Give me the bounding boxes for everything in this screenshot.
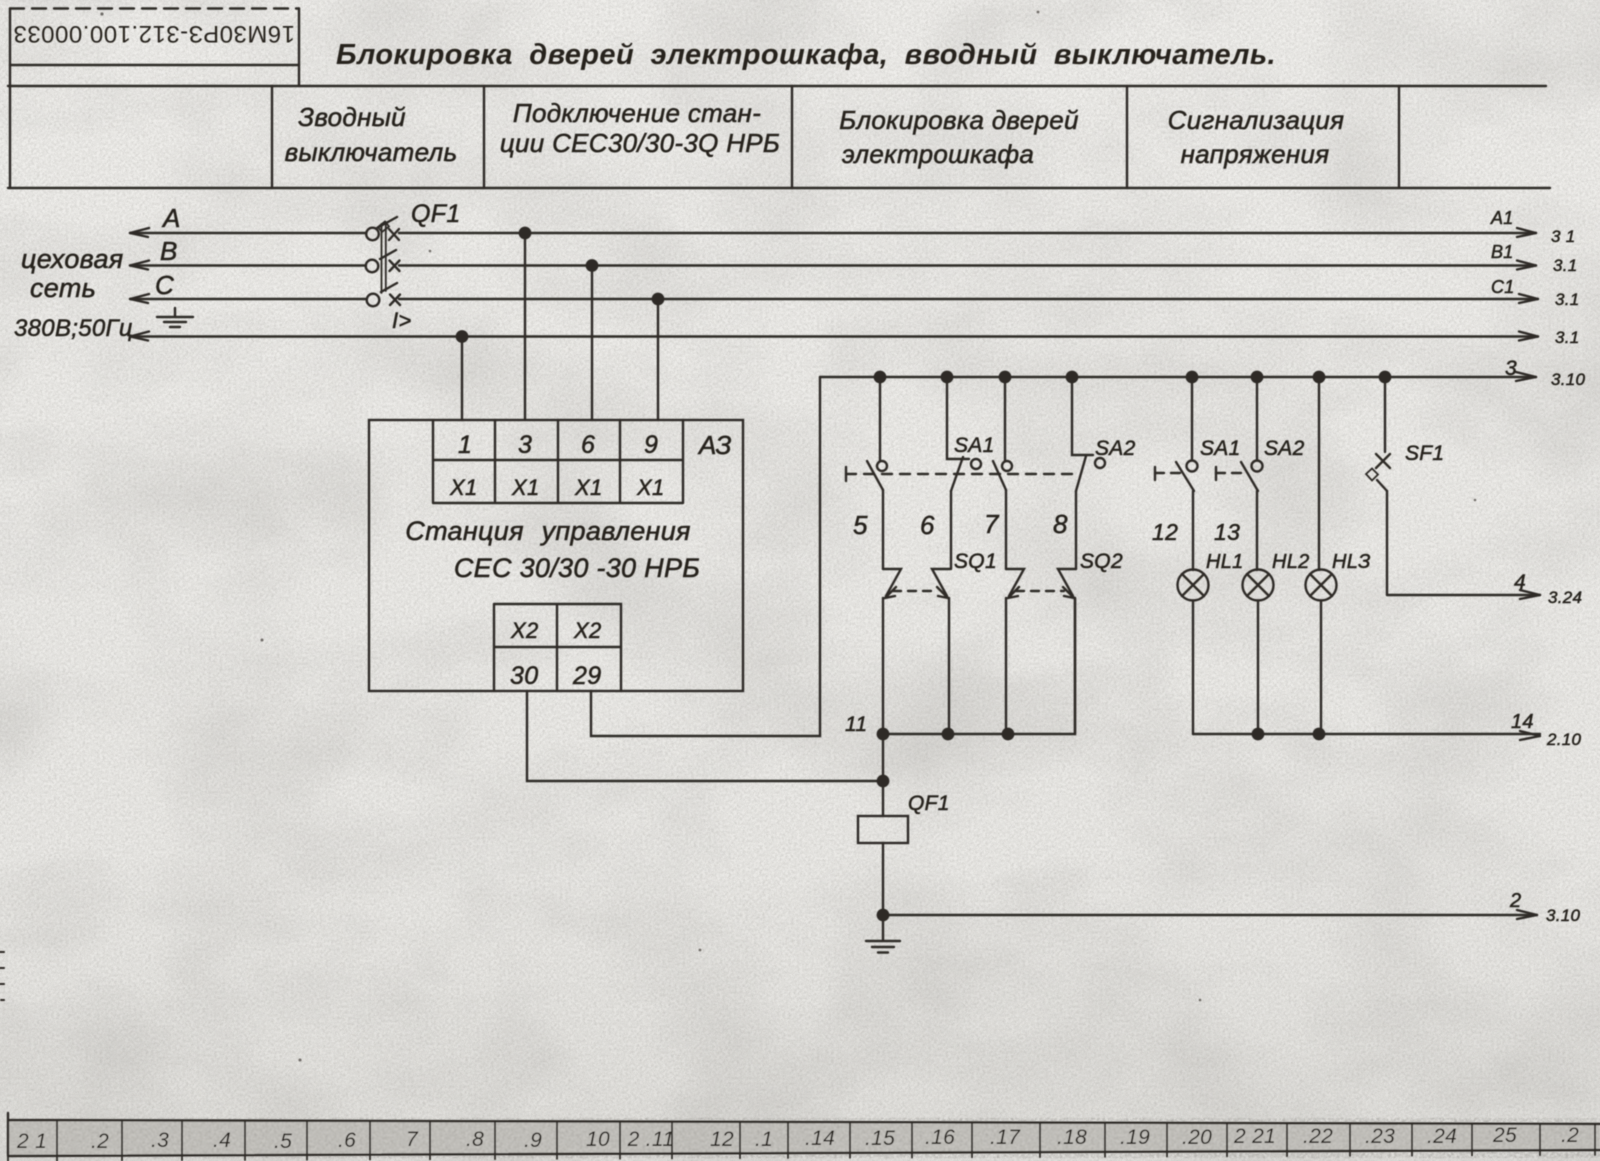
svg-text:3.24: 3.24 <box>1548 588 1582 607</box>
svg-text:А: А <box>161 203 181 233</box>
svg-text:2: 2 <box>1509 890 1521 912</box>
SA1/SA2 mechanical link <box>845 467 847 481</box>
switch SF1 <box>1384 377 1386 452</box>
ruler band borders <box>8 1113 1600 1156</box>
svg-text:3.1: 3.1 <box>1555 290 1580 309</box>
svg-text:.6: .6 <box>338 1129 356 1152</box>
svg-text:QF1: QF1 <box>411 200 461 228</box>
ruler cell dividers <box>8 1120 1595 1161</box>
svg-text:.17: .17 <box>990 1126 1021 1149</box>
junction node on neutral to X1:1 <box>457 331 467 341</box>
svg-text:Х1: Х1 <box>511 475 540 500</box>
wire to lamp HL3 <box>1318 377 1320 570</box>
bus 3 wire <box>820 376 1536 378</box>
svg-text:13: 13 <box>1214 519 1240 545</box>
svg-text:16М30РЗ-312.100.00033: 16М30РЗ-312.100.00033 <box>13 20 295 47</box>
wire 2 <box>883 914 1537 916</box>
svg-text:Блокировка дверей электрошка: Блокировка дверей электрошкафа, вводный … <box>336 39 1276 71</box>
svg-text:сеть: сеть <box>30 273 96 303</box>
breaker QF1 pole C contact <box>367 294 380 307</box>
svg-text:.20: .20 <box>1182 1126 1212 1149</box>
svg-text:.2: .2 <box>91 1130 109 1153</box>
SQ2 link <box>1016 590 1064 592</box>
svg-text:1: 1 <box>458 431 472 459</box>
breaker QF1 pole A contact <box>366 228 379 241</box>
svg-text:3 1: 3 1 <box>1551 227 1576 246</box>
svg-text:В1: В1 <box>1491 242 1514 262</box>
svg-text:.4: .4 <box>213 1129 231 1152</box>
svg-text:Блокировка дверей: Блокировка дверей <box>839 105 1079 135</box>
svg-text:.9: .9 <box>524 1129 542 1152</box>
svg-text:.19: .19 <box>1120 1126 1150 1149</box>
left margin marks <box>0 952 4 1000</box>
svg-text:СЕС 30/30 -30 НРБ: СЕС 30/30 -30 НРБ <box>454 553 700 583</box>
switch SA2 pole 2 <box>1072 377 1093 455</box>
svg-text:12: 12 <box>1152 519 1178 545</box>
terminal strip X1 <box>433 420 683 503</box>
limit switch SQ2 pole B <box>1058 569 1076 596</box>
svg-text:3.1: 3.1 <box>1553 256 1578 275</box>
junction node on phase B to X1:6 <box>587 260 597 270</box>
ground symbol on neutral <box>157 308 193 327</box>
svg-text:30: 30 <box>510 662 538 690</box>
wire phase A to X1:3 <box>524 233 526 420</box>
svg-text:напряжения: напряжения <box>1181 139 1330 169</box>
svg-text:Подключение стан-: Подключение стан- <box>513 98 761 128</box>
svg-text:А1: А1 <box>1490 208 1514 228</box>
control station A3 outline <box>369 420 743 691</box>
switch SA2 (signal) <box>1256 377 1258 460</box>
wire coil to ground <box>882 843 884 915</box>
scan specks <box>100 11 1476 1062</box>
ruler band fill <box>8 1120 1600 1156</box>
svg-text:14: 14 <box>1511 711 1534 733</box>
svg-text:10: 10 <box>586 1128 610 1151</box>
lamp HL3 <box>1306 570 1337 601</box>
svg-text:С1: С1 <box>1491 277 1515 297</box>
switch SA1 pole 2 <box>947 377 969 459</box>
wire X2:30 to QF1 coil node <box>527 691 880 781</box>
svg-text:.3: .3 <box>151 1129 169 1152</box>
svg-text:Сигнализация: Сигнализация <box>1168 105 1345 135</box>
wire phase B to X1:6 <box>591 266 593 421</box>
svg-text:.2: .2 <box>1561 1124 1579 1147</box>
svg-text:.15: .15 <box>865 1127 895 1150</box>
svg-text:2 .11: 2 .11 <box>627 1128 675 1151</box>
svg-text:выключатель: выключатель <box>285 137 458 167</box>
wire 4 <box>1387 594 1540 596</box>
svg-text:5: 5 <box>853 510 868 540</box>
svg-text:Станция управления: Станция управления <box>405 516 690 546</box>
neutral wire <box>130 335 1538 337</box>
svg-text:12: 12 <box>710 1128 734 1151</box>
svg-text:SA2: SA2 <box>1095 437 1136 460</box>
svg-text:Х1: Х1 <box>636 475 665 500</box>
svg-text:7: 7 <box>406 1128 419 1151</box>
svg-text:29: 29 <box>572 662 601 690</box>
ruler cell labels <box>16 1124 1579 1153</box>
svg-text:.18: .18 <box>1057 1126 1087 1149</box>
svg-text:3: 3 <box>518 431 532 459</box>
limit switch SQ1 pole B <box>932 569 950 596</box>
switch SA2 pole 1 <box>1004 377 1006 461</box>
svg-text:9: 9 <box>644 431 658 459</box>
coil QF1 <box>858 816 908 843</box>
svg-text:НLЗ: НLЗ <box>1332 551 1371 573</box>
svg-text:ции СЕС30/30-3Q НРБ: ции СЕС30/30-3Q НРБ <box>500 128 780 158</box>
svg-text:7: 7 <box>984 509 1000 539</box>
wire node 11 down to coil <box>882 734 884 816</box>
lamp HL1 <box>1178 570 1209 601</box>
svg-text:В: В <box>160 236 178 266</box>
ground <box>866 915 900 953</box>
svg-text:SA1: SA1 <box>954 434 995 457</box>
breaker QF1 linkage bar <box>382 222 386 293</box>
breaker QF1 pole B contact <box>366 260 379 273</box>
svg-text:QF1: QF1 <box>908 792 950 815</box>
phase A wire <box>130 232 1536 234</box>
svg-text:Х2: Х2 <box>573 618 602 643</box>
svg-text:SQ1: SQ1 <box>954 550 997 573</box>
svg-text:Х2: Х2 <box>510 618 539 643</box>
junction dots on bus 3 <box>875 372 885 382</box>
svg-text:Зводный: Зводный <box>298 102 406 132</box>
svg-text:.23: .23 <box>1365 1125 1395 1148</box>
svg-text:4: 4 <box>1514 571 1526 594</box>
svg-text:цеховая: цеховая <box>21 244 124 274</box>
svg-text:2.10: 2.10 <box>1546 730 1582 749</box>
switch SA1 (signal) <box>1191 377 1193 460</box>
svg-text:электрошкафа: электрошкафа <box>842 139 1034 169</box>
svg-text:11: 11 <box>845 713 867 736</box>
svg-text:.16: .16 <box>925 1126 955 1149</box>
switch SA1 pole 1 <box>879 377 881 460</box>
svg-text:HL1: HL1 <box>1206 551 1244 573</box>
lamp HL2 <box>1243 570 1274 601</box>
svg-text:3.10: 3.10 <box>1551 370 1586 389</box>
svg-text:I>: I> <box>392 308 412 333</box>
svg-text:25: 25 <box>1492 1124 1517 1147</box>
svg-text:3: 3 <box>1505 357 1517 380</box>
svg-text:SQ2: SQ2 <box>1080 550 1123 573</box>
svg-text:SA2: SA2 <box>1264 437 1305 460</box>
svg-text:.22: .22 <box>1303 1125 1333 1148</box>
svg-text:8: 8 <box>1053 509 1068 539</box>
svg-text:3.10: 3.10 <box>1546 906 1581 925</box>
svg-text:Х1: Х1 <box>449 475 478 500</box>
wire phase C to X1:9 <box>657 299 659 420</box>
svg-text:380В;50Гц: 380В;50Гц <box>14 315 133 342</box>
lamp drop wires <box>1192 601 1194 735</box>
svg-text:С: С <box>155 270 174 300</box>
phase C wire <box>130 298 1538 300</box>
header table frame <box>8 85 1546 87</box>
limit switch SQ1 pole A <box>883 569 901 596</box>
wire neutral to X1:1 <box>461 337 463 421</box>
SQ1 link <box>893 590 938 592</box>
wire X2:29 up to bus 3 <box>591 377 820 736</box>
svg-text:6: 6 <box>581 431 595 459</box>
wire 14 left segment <box>883 598 1075 734</box>
svg-text:6: 6 <box>920 510 935 540</box>
junction node on phase C to X1:9 <box>653 294 663 304</box>
svg-text:.14: .14 <box>805 1127 835 1150</box>
svg-text:3.1: 3.1 <box>1555 328 1580 347</box>
svg-text:SF1: SF1 <box>1405 442 1444 465</box>
svg-text:НL2: НL2 <box>1272 551 1310 573</box>
svg-text:Х1: Х1 <box>574 475 603 500</box>
terminal strip X2 <box>494 604 621 691</box>
phase B wire <box>130 264 1536 266</box>
svg-text:.8: .8 <box>466 1128 484 1151</box>
svg-text:SA1: SA1 <box>1200 437 1241 460</box>
limit switch SQ2 pole A <box>1006 569 1024 596</box>
stamp box border <box>10 7 299 9</box>
svg-text:АЗ: АЗ <box>697 430 732 460</box>
svg-text:.1: .1 <box>755 1128 773 1151</box>
svg-text:2 1: 2 1 <box>16 1130 47 1153</box>
wire 14 right segment <box>1193 733 1540 735</box>
junction node on phase A to X1:3 <box>520 228 530 238</box>
svg-text:2 21: 2 21 <box>1233 1125 1276 1148</box>
svg-text:.24: .24 <box>1427 1125 1457 1148</box>
svg-text:.5: .5 <box>274 1130 292 1153</box>
